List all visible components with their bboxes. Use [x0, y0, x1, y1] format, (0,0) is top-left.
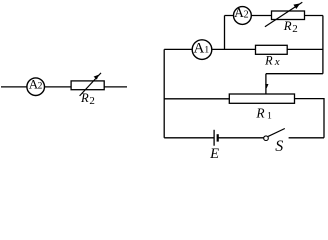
wire: bottom horizontal, right segment after switch	[289, 137, 324, 139]
ammeter A2 (top branch)	[234, 5, 252, 24]
switch S: pivot circle	[264, 136, 269, 141]
resistor Rx	[256, 45, 288, 54]
variable resistor R2 (left fragment): box	[71, 81, 104, 90]
wire: bottom horizontal, battery to switch pivot	[218, 137, 264, 139]
svg-text:A: A	[234, 5, 244, 20]
variable resistor R2 (top branch): box	[272, 11, 305, 20]
wire: left fragment horizontal lead	[1, 86, 127, 88]
wire: row 1 top branch horizontal	[225, 15, 323, 17]
wire: slider drop vertical into R1	[265, 74, 267, 94]
svg-text:E: E	[209, 146, 219, 159]
svg-text:1: 1	[267, 112, 272, 122]
wire: right circuit left vertical	[163, 49, 165, 137]
svg-text:2: 2	[244, 10, 249, 21]
svg-text:R: R	[283, 19, 292, 33]
rheostat R1: box	[229, 94, 294, 103]
svg-text:2: 2	[89, 95, 95, 107]
ammeter A1	[192, 40, 212, 60]
battery E: long plate	[213, 130, 215, 146]
ammeter A2 (left fragment)	[27, 76, 45, 95]
wire: bottom horizontal, left segment to battery	[164, 137, 214, 139]
wire: right vertical joining row1, row2, row3	[322, 16, 324, 74]
svg-text:R: R	[264, 54, 273, 68]
svg-text:S: S	[275, 138, 283, 155]
wire: row 4 horizontal to R1 left terminal	[164, 98, 229, 100]
svg-text:R: R	[80, 91, 89, 105]
svg-text:1: 1	[204, 46, 209, 56]
svg-text:2: 2	[292, 23, 298, 35]
wire: row 2 horizontal (A1 / Rx branch)	[164, 48, 323, 50]
wire: row 3 horizontal (slider tap lead)	[266, 73, 323, 75]
wire: R1 right terminal lead	[295, 99, 325, 138]
variable resistor R2 (top branch): diagonal arrow	[265, 2, 302, 27]
battery E: short plate	[217, 134, 219, 141]
svg-text:x: x	[274, 56, 280, 68]
svg-text:A: A	[194, 40, 205, 56]
switch S: blade	[268, 129, 285, 137]
svg-text:R: R	[255, 106, 264, 121]
variable resistor R2 (left fragment): diagonal arrow	[80, 73, 101, 96]
svg-text:2: 2	[38, 82, 43, 92]
wire: vertical from row 2 junction up to top branch	[224, 16, 226, 50]
rheostat R1: slider arrowhead	[265, 84, 268, 88]
